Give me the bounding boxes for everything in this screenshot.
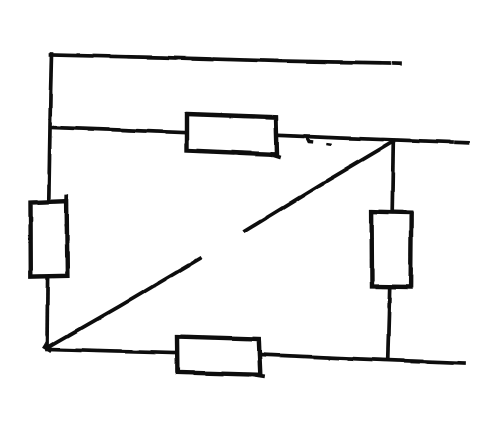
wire R3 right lead to bottom right: [262, 355, 464, 363]
resistor R1 bottom-right overshoot: [271, 155, 279, 158]
wire R4 bottom lead to bottom bus: [388, 288, 390, 357]
resistor R3 (bottom): [177, 337, 260, 375]
resistor R4 (right): [372, 212, 412, 287]
wire R1 right lead to node B: [279, 135, 452, 142]
resistor R2 (left): [31, 201, 68, 276]
resistor R1 (top): [187, 114, 278, 155]
wire node B right end dash: [456, 140, 468, 144]
wire diagonal lower segment: [47, 259, 200, 349]
wire diagonal upper segment: [245, 142, 393, 232]
wire top bus end dash: [394, 61, 400, 65]
resistor R3 bottom-right overshoot: [254, 375, 263, 376]
stray ink nub below wire: [307, 139, 312, 142]
wire node A to R1 left lead: [51, 128, 185, 133]
resistor R2 right-side top overshoot: [65, 197, 69, 207]
node C corner blob: [46, 347, 50, 350]
wire left vertical upper: [49, 54, 52, 200]
wire node C to R3 left lead: [47, 350, 175, 354]
stray ink dot: [328, 143, 331, 146]
wire node B to R4 top lead: [392, 141, 393, 211]
wire R2 bottom lead to node C: [45, 278, 49, 349]
wire top bus: [51, 55, 390, 63]
